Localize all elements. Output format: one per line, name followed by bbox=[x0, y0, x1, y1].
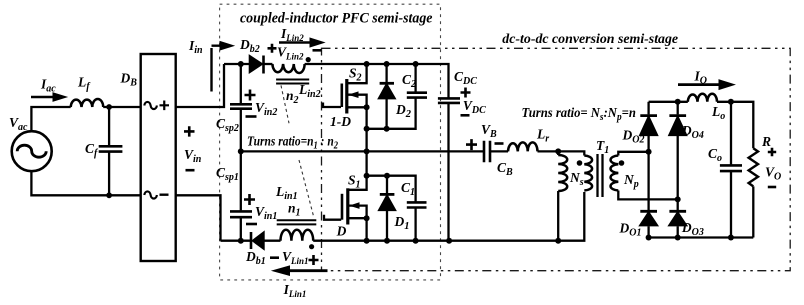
svg-text:coupled-inductor PFC semi-stag: coupled-inductor PFC semi-stage bbox=[240, 10, 433, 26]
svg-text:1-D: 1-D bbox=[330, 114, 351, 129]
svg-text:R: R bbox=[761, 134, 771, 149]
svg-text:dc-to-dc conversion semi-stage: dc-to-dc conversion semi-stage bbox=[502, 32, 678, 47]
svg-text:D: D bbox=[336, 224, 347, 239]
